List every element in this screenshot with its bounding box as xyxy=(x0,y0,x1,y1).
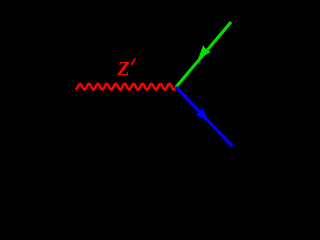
svg-text:Z: Z xyxy=(117,58,130,80)
arrowhead on blue line xyxy=(195,107,209,121)
prime mark on Z xyxy=(131,58,136,66)
incoming fermion line (green) xyxy=(176,22,231,87)
outgoing fermion line (blue) xyxy=(176,87,233,147)
photon propagator Z' (red wavy line) xyxy=(76,84,176,90)
arrowhead on green line xyxy=(198,45,211,59)
